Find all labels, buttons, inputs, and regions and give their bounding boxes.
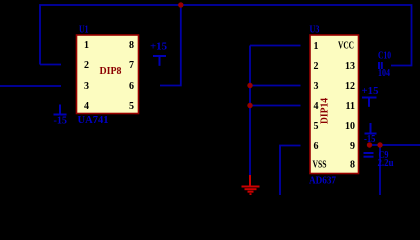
svg-text:7: 7 bbox=[129, 60, 134, 71]
svg-text:U3: U3 bbox=[310, 25, 320, 36]
svg-text:-15: -15 bbox=[54, 116, 68, 127]
svg-text:2.2u: 2.2u bbox=[378, 158, 394, 169]
svg-text:10: 10 bbox=[345, 121, 355, 132]
svg-text:2: 2 bbox=[84, 60, 89, 71]
svg-text:4: 4 bbox=[84, 101, 89, 112]
svg-text:13: 13 bbox=[345, 61, 355, 72]
svg-text:3: 3 bbox=[84, 81, 89, 92]
svg-text:-15: -15 bbox=[364, 134, 376, 145]
svg-text:AD637: AD637 bbox=[309, 176, 336, 187]
svg-text:11: 11 bbox=[346, 101, 355, 112]
svg-text:5: 5 bbox=[129, 101, 134, 112]
svg-text:4: 4 bbox=[314, 101, 319, 112]
svg-text:3: 3 bbox=[314, 81, 319, 92]
svg-text:5: 5 bbox=[314, 121, 319, 132]
svg-text:1: 1 bbox=[84, 40, 89, 51]
svg-text:+15: +15 bbox=[150, 42, 167, 53]
svg-text:9: 9 bbox=[350, 141, 355, 152]
svg-text:DIP14: DIP14 bbox=[320, 98, 331, 124]
svg-text:8: 8 bbox=[129, 40, 134, 51]
svg-text:104: 104 bbox=[378, 68, 390, 79]
svg-text:UA741: UA741 bbox=[78, 115, 109, 126]
svg-text:VSS: VSS bbox=[313, 160, 327, 171]
svg-text:1: 1 bbox=[314, 41, 319, 52]
svg-text:6: 6 bbox=[129, 81, 134, 92]
svg-text:DIP8: DIP8 bbox=[100, 66, 122, 77]
svg-text:6: 6 bbox=[314, 141, 319, 152]
svg-text:8: 8 bbox=[350, 160, 355, 171]
svg-text:2: 2 bbox=[314, 61, 319, 72]
svg-text:12: 12 bbox=[345, 81, 355, 92]
svg-text:C10: C10 bbox=[378, 51, 391, 62]
svg-text:+15: +15 bbox=[362, 86, 379, 97]
svg-text:U1: U1 bbox=[79, 25, 89, 36]
svg-text:VCC: VCC bbox=[338, 41, 354, 52]
